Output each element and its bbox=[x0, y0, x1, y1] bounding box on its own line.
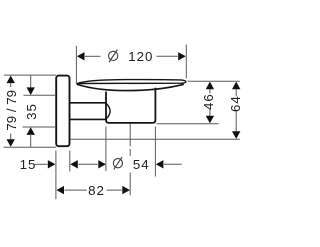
dim 35: top extension line bbox=[24, 94, 57, 96]
dim 35: up arrow (tip at bottom ext) bbox=[27, 127, 35, 135]
dim 35: upper line bbox=[30, 76, 32, 89]
dim 35: bottom extension line bbox=[23, 126, 57, 128]
dim 15/Ø54: middle line bbox=[78, 163, 98, 165]
dim Ø120: left arrow bbox=[77, 52, 85, 60]
wall plate (side view) bbox=[56, 76, 69, 147]
diameter symbol (top) bbox=[109, 50, 118, 63]
dim 79/79: up arrow bbox=[7, 76, 15, 84]
dim 46/64: shared top extension line bbox=[188, 80, 240, 82]
dim 15: leader line bbox=[34, 163, 48, 165]
svg-text:79 / 79: 79 / 79 bbox=[4, 90, 19, 131]
dish plate (lens profile) bbox=[77, 80, 186, 84]
svg-text:46: 46 bbox=[201, 93, 216, 110]
cup right extension line (Ø54) bbox=[154, 127, 156, 177]
arm bottom bbox=[70, 118, 108, 120]
dim 79/79: bottom extension line bbox=[4, 146, 57, 148]
dim 82: left arrow bbox=[56, 186, 64, 194]
dim Ø120: left line stub bbox=[85, 55, 101, 57]
dim 64: bottom extension line (long) bbox=[70, 138, 240, 140]
dim 46: up arrow bbox=[206, 82, 214, 90]
svg-text:82: 82 bbox=[88, 183, 105, 198]
svg-text:120: 120 bbox=[128, 49, 153, 64]
dim 46: lower stub bbox=[209, 110, 211, 116]
dim 15/Ø54: middle double-arrow segment: left arrow bbox=[70, 160, 78, 168]
dim Ø120: right arrow bbox=[178, 52, 186, 60]
dish underside arc bbox=[77, 84, 184, 90]
svg-text:15: 15 bbox=[20, 157, 37, 172]
cup center line (dash-dot) bbox=[129, 124, 131, 147]
dim 35: lower line bbox=[30, 134, 32, 147]
diameter symbol (bottom) bbox=[113, 157, 122, 170]
dim Ø120: left extension line bbox=[75, 46, 77, 85]
dim 79/79: down arrow bbox=[7, 139, 15, 147]
dim 82: right line bbox=[107, 189, 122, 191]
dim 82: left line bbox=[65, 189, 87, 191]
arm rounded end bbox=[106, 103, 110, 119]
dim Ø54: right arrow bbox=[156, 160, 164, 168]
dim 82: right arrow bbox=[122, 186, 130, 194]
dim Ø120: right line stub bbox=[157, 55, 178, 57]
cup (soap bowl holder) bbox=[106, 88, 155, 123]
dim 46: bottom extension line bbox=[157, 123, 219, 125]
dim 64: up arrow bbox=[232, 82, 240, 90]
dim 64: upper stub bbox=[235, 89, 237, 96]
plate left extension line (15/82) bbox=[55, 151, 57, 200]
svg-text:35: 35 bbox=[24, 103, 39, 120]
dim 35: down arrow (tip at top ext) bbox=[27, 87, 35, 95]
dim Ø54: right tail line bbox=[164, 163, 182, 165]
plate right extension line (15) bbox=[69, 151, 71, 172]
svg-text:54: 54 bbox=[133, 157, 150, 172]
dim 79/79: lower line stub bbox=[10, 134, 12, 140]
dim 46: down arrow bbox=[206, 116, 214, 124]
dim Ø120: right extension line bbox=[185, 45, 187, 79]
dim 79/79: upper line stub bbox=[10, 83, 12, 87]
dim 79/79: top extension line bbox=[4, 74, 56, 76]
dim 46: upper stub bbox=[209, 89, 211, 94]
dim Ø54: left arrow bbox=[98, 160, 106, 168]
dim 64: lower stub bbox=[235, 111, 237, 132]
arm top bbox=[70, 102, 107, 104]
dim 64: down arrow bbox=[232, 131, 240, 139]
dim 15: right-pointing arrow at wall face bbox=[48, 160, 56, 168]
svg-text:64: 64 bbox=[228, 95, 243, 112]
cup left extension line (Ø54) bbox=[105, 127, 107, 172]
